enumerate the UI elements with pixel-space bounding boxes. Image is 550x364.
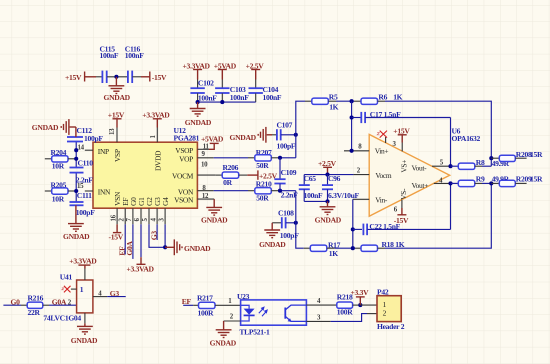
pin 1 DVDD (150, 128, 163, 172)
svg-text:+3.3V: +3.3V (351, 288, 370, 297)
svg-text:PGA281: PGA281 (174, 134, 200, 143)
ground GNDAD under C115/C116 (104, 77, 131, 102)
power port -15V at pin 16 (109, 224, 124, 241)
svg-text:C65: C65 (304, 174, 317, 183)
resistor R206 (222, 163, 247, 187)
wire (183, 304, 193, 306)
svg-text:GNDAD: GNDAD (259, 240, 286, 249)
svg-text:-15V: -15V (152, 73, 167, 82)
junction (489, 156, 493, 160)
power port +3.3VAD (183, 61, 211, 79)
resistor R204 (45, 148, 76, 171)
svg-text:VS-: VS- (399, 188, 408, 200)
wire input vertical (75, 142, 77, 168)
svg-text:G0A: G0A (125, 240, 134, 255)
capacitor C102 (190, 78, 217, 102)
svg-text:GNDAD: GNDAD (104, 93, 131, 102)
svg-text:100nF: 100nF (125, 51, 144, 60)
svg-text:+3.3VAD: +3.3VAD (69, 256, 97, 265)
wire (3, 304, 21, 306)
pin 4 Vout+ (434, 177, 453, 185)
svg-text:EF: EF (182, 297, 192, 306)
wire (132, 76, 141, 78)
svg-text:C102: C102 (198, 78, 214, 87)
capacitor C109 (274, 158, 298, 200)
wire (335, 247, 355, 249)
svg-text:22R: 22R (28, 308, 41, 317)
svg-text:C96: C96 (328, 174, 341, 183)
junction (350, 99, 354, 103)
power port +2.5V at Vocm (318, 159, 337, 175)
junction (278, 156, 282, 160)
power port +3.3V at P42 (351, 288, 370, 307)
svg-text:16: 16 (110, 214, 117, 221)
resistor R5 (305, 93, 339, 112)
svg-text:GNDAD: GNDAD (185, 118, 212, 127)
power port +15V (65, 72, 96, 83)
U23 pin 3 wire to P42 (306, 314, 367, 322)
svg-text:13: 13 (109, 128, 116, 135)
svg-text:1: 1 (80, 285, 84, 294)
svg-text:100pF: 100pF (277, 142, 296, 151)
svg-text:14: 14 (78, 144, 85, 151)
junction (74, 189, 78, 193)
svg-text:74LVC1G04: 74LVC1G04 (43, 314, 81, 323)
svg-text:U23: U23 (237, 292, 250, 301)
junction (325, 199, 329, 203)
capacitor C112 (67, 126, 103, 143)
wire R18 feedback to output (385, 183, 491, 248)
svg-text:C107: C107 (277, 121, 293, 130)
wire R8 up to R208 (490, 158, 492, 166)
junction (163, 245, 167, 249)
junction (220, 100, 224, 104)
svg-text:R217: R217 (197, 294, 213, 303)
junction (351, 246, 355, 250)
svg-text:50R: 50R (256, 161, 269, 170)
junction (489, 181, 493, 185)
resistor R218 (337, 293, 361, 317)
svg-text:VSOP: VSOP (175, 146, 193, 155)
svg-text:100R: 100R (337, 307, 353, 316)
capacitor C96 (322, 174, 360, 202)
svg-text:GNDAD: GNDAD (184, 244, 211, 253)
svg-text:Vout-: Vout- (412, 163, 428, 172)
resistor R207 (255, 148, 280, 170)
no-ERC marker on U41 (62, 286, 77, 293)
pin 9 VOP (179, 151, 255, 164)
wire C17 feedback down (450, 118, 452, 167)
resistor R6 (354, 92, 403, 104)
U23 LED (241, 305, 255, 321)
capacitor C104 (249, 80, 282, 103)
capacitor C116 (125, 45, 144, 83)
wire (96, 76, 102, 78)
pin 8 VON (178, 185, 255, 196)
svg-text:Vocm: Vocm (375, 171, 391, 180)
svg-text:6.3V/10uF: 6.3V/10uF (328, 191, 360, 200)
resistor R210 (255, 180, 280, 203)
no-ERC marker on U6 top pin (377, 131, 387, 143)
svg-text:100nF: 100nF (100, 51, 119, 60)
resistor R209 (491, 175, 543, 187)
svg-text:2.2nF: 2.2nF (76, 175, 94, 184)
wire VON down to R17 (296, 191, 304, 249)
svg-text:INN: INN (98, 188, 111, 197)
ground GNDAD rotated left of C107 (230, 127, 266, 143)
ground GNDAD at pin 12 (201, 199, 228, 224)
junction (294, 221, 298, 225)
svg-text:VS+: VS+ (399, 160, 408, 173)
resistor R217 (193, 294, 240, 318)
resistor R9 (451, 174, 510, 186)
wire bus under caps (198, 101, 256, 103)
svg-text:G3: G3 (149, 231, 158, 241)
svg-text:15R: 15R (530, 150, 543, 159)
svg-text:C110: C110 (78, 159, 94, 168)
wire (107, 76, 128, 78)
wire / net label G0A (49, 297, 77, 306)
svg-text:50R: 50R (256, 194, 269, 203)
wire ground bus (304, 200, 327, 202)
svg-text:G0A: G0A (52, 297, 67, 306)
U23 pin 2 to ground (210, 314, 241, 348)
svg-text:+3.3VAD: +3.3VAD (142, 110, 170, 119)
svg-text:Vin-: Vin- (375, 196, 388, 205)
svg-text:GNDAD: GNDAD (315, 215, 342, 224)
svg-text:R206: R206 (223, 163, 239, 172)
svg-text:GNDAD: GNDAD (230, 133, 257, 142)
svg-text:TLP521-1: TLP521-1 (239, 328, 270, 337)
svg-text:R9: R9 (476, 175, 485, 184)
junction (114, 75, 118, 79)
svg-text:OPA1632: OPA1632 (452, 134, 481, 143)
power port +3.3VAD at pin 6 (127, 257, 155, 273)
svg-text:Header 2: Header 2 (377, 322, 405, 331)
junction (350, 115, 354, 119)
svg-text:1K: 1K (393, 92, 402, 101)
svg-text:INP: INP (98, 147, 109, 156)
pin 2 EF (118, 198, 130, 255)
svg-text:GNDAD: GNDAD (71, 336, 98, 345)
pin 3 G4 (158, 197, 170, 247)
U41 pin 4 output / net label G3 (93, 289, 126, 298)
svg-text:Vin+: Vin+ (375, 146, 389, 155)
pin 5 G2 (142, 197, 165, 247)
pin 6 G1 (134, 197, 146, 257)
capacitor C115 (100, 45, 119, 83)
capacitor C108 (272, 208, 299, 240)
resistor R216 (21, 294, 49, 317)
capacitor C17 (352, 110, 451, 123)
svg-text:GNDAD: GNDAD (201, 215, 228, 224)
wire (75, 173, 77, 202)
resistor R8 (451, 158, 510, 169)
pin 4 G3 (150, 197, 162, 240)
ground GNDAD under C108 (259, 223, 286, 249)
power port +5VAD at pin 11 (201, 135, 224, 150)
svg-text:10R: 10R (52, 195, 65, 204)
ground GNDAD rotated right of G2/G4 (165, 239, 211, 255)
svg-text:10: 10 (201, 162, 208, 169)
svg-text:+3.3VAD: +3.3VAD (127, 264, 155, 273)
U23 phototransistor (285, 305, 306, 322)
junction (325, 173, 329, 177)
svg-text:+15V: +15V (65, 73, 82, 82)
pin 15 INN (77, 183, 111, 196)
svg-text:0R: 0R (223, 178, 232, 187)
svg-text:DVDD: DVDD (154, 150, 163, 171)
svg-text:VSP: VSP (113, 149, 122, 162)
junction (278, 189, 282, 193)
wire VOP up to R5 (296, 101, 305, 158)
svg-text:C109: C109 (281, 168, 297, 177)
svg-text:R5: R5 (329, 93, 338, 102)
U23 pin 4 (306, 298, 336, 305)
junction (74, 157, 78, 161)
svg-text:1K: 1K (329, 249, 338, 258)
svg-text:VOP: VOP (179, 155, 193, 164)
svg-text:100R: 100R (198, 308, 214, 317)
power port +2.5V (246, 61, 265, 79)
svg-text:VOCM: VOCM (172, 172, 194, 181)
wire C22 feedback up (450, 183, 452, 229)
svg-text:GNDAD: GNDAD (32, 123, 59, 132)
svg-text:G4: G4 (161, 197, 170, 206)
U41 power pin / +3.3VAD (69, 256, 97, 280)
svg-text:1: 1 (383, 300, 387, 309)
pin 14 INP (78, 144, 109, 156)
capacitor C65 (299, 174, 323, 202)
IC U41 74LVC1G04 (43, 273, 92, 323)
U41 ground pin / GNDAD (71, 313, 98, 345)
capacitor C103 (215, 80, 249, 103)
svg-text:1K: 1K (329, 103, 338, 112)
pin 1 Vin- (353, 199, 369, 248)
wire Vin+ branch (351, 101, 353, 151)
svg-text:C111: C111 (77, 191, 92, 200)
IC U12 PGA281 body (93, 126, 200, 208)
junction (74, 148, 78, 152)
svg-text:U41: U41 (60, 273, 73, 282)
power port +15V above U12 (108, 110, 125, 127)
capacitor C107 (267, 121, 296, 151)
svg-text:+15V: +15V (108, 110, 125, 119)
svg-text:10R: 10R (52, 162, 65, 171)
pin 13 VSP (109, 128, 122, 163)
capacitor C22 (351, 222, 451, 235)
svg-text:2: 2 (383, 309, 387, 318)
resistor R17 (304, 240, 341, 258)
svg-text:VSON: VSON (174, 196, 194, 205)
svg-text:100pF: 100pF (84, 134, 103, 143)
capacitor C110 (70, 159, 94, 185)
svg-text:100pF: 100pF (76, 208, 95, 217)
svg-text:100nF: 100nF (230, 93, 249, 102)
svg-text:R6: R6 (378, 92, 387, 101)
pin 10 VOCM (172, 162, 222, 181)
optocoupler U23 TLP521-1 (237, 292, 306, 337)
svg-text:-15V: -15V (109, 232, 124, 241)
op-amp U6 OPA1632 (369, 127, 480, 217)
junction (196, 100, 200, 104)
pin 6 VS- (394, 200, 409, 225)
junction (294, 133, 298, 137)
resistor R208 (491, 150, 543, 161)
pin 3 VS+ (393, 127, 411, 152)
svg-text:G3: G3 (110, 289, 120, 298)
svg-text:100nF: 100nF (304, 191, 323, 200)
pin 7 G0 (126, 197, 138, 259)
ground GNDAD under C65/C96 (315, 201, 342, 224)
svg-text:+5VAD: +5VAD (201, 135, 224, 144)
wire R6 feedback to output (385, 101, 491, 158)
wire VOP node (280, 157, 296, 159)
svg-text:100nF: 100nF (263, 93, 282, 102)
header P42 (360, 287, 404, 330)
resistor R18 (355, 240, 405, 251)
power port +2.5V at R206 (247, 170, 277, 180)
ground GNDAD rotated left of C112 (32, 119, 69, 135)
svg-text:GNDAD: GNDAD (210, 338, 237, 347)
resistor R205 (45, 180, 76, 203)
power port +5VAD (214, 61, 237, 79)
svg-text:100nF: 100nF (198, 93, 217, 102)
svg-text:C108: C108 (278, 208, 294, 217)
power port -15V (141, 72, 167, 83)
wire (336, 100, 354, 102)
power port +3.3VAD above U12 (142, 110, 170, 127)
capacitor C111 (70, 191, 96, 217)
wire VON node (280, 190, 296, 192)
ground GNDAD under C111 (63, 205, 90, 241)
svg-text:GNDAD: GNDAD (63, 232, 90, 241)
pin 11 VSOP (175, 143, 209, 155)
pin 8 Vin+ (344, 144, 369, 153)
ground GNDAD under C102 (185, 102, 212, 127)
U23 light arrows (259, 307, 267, 316)
pin 2 Vocm (304, 168, 369, 175)
svg-text:P42: P42 (377, 287, 389, 296)
svg-text:Vout+: Vout+ (412, 181, 429, 190)
pin 5 Vout- (432, 159, 453, 168)
pin 16 VSN (110, 191, 122, 224)
svg-text:15R: 15R (530, 175, 543, 184)
pin 12 VSON (174, 193, 214, 205)
